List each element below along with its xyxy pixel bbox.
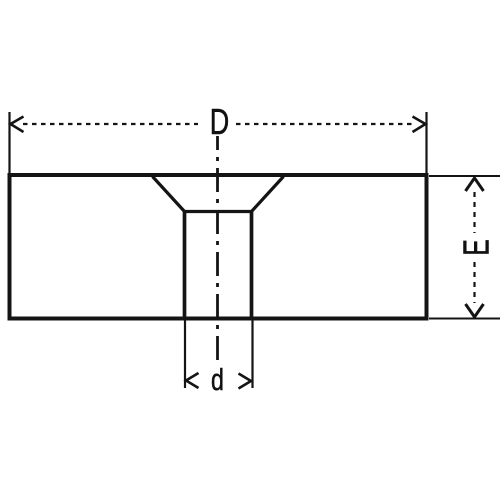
hole right wall: [250, 212, 254, 320]
extension line right for D: [425, 112, 427, 173]
arrowhead D right: [413, 117, 426, 133]
hole left wall: [183, 212, 187, 320]
svg-text:E: E: [456, 239, 497, 255]
svg-text:d: d: [211, 362, 224, 397]
centerline: [216, 136, 219, 360]
washer body outline: [10, 175, 427, 319]
extension line top for E: [429, 175, 500, 177]
arrowhead d left: [186, 373, 199, 388]
countersink left edge: [153, 177, 185, 212]
extension line left for D: [8, 112, 10, 173]
arrowhead D left: [11, 117, 24, 133]
countersink right edge: [252, 177, 284, 212]
dimension line E upper part: [473, 192, 475, 233]
countersink bottom line: [185, 210, 252, 213]
dimension line D right part: [236, 123, 414, 125]
svg-text:D: D: [210, 101, 229, 142]
extension line right for d: [251, 321, 253, 389]
extension line bottom for E: [429, 318, 500, 320]
dimension line D left part: [23, 123, 198, 125]
arrowhead E bottom: [466, 304, 484, 317]
dimension line E lower part: [473, 262, 475, 303]
arrowhead d right: [239, 374, 252, 389]
extension line left for d: [184, 321, 186, 389]
arrowhead E top: [466, 178, 484, 191]
